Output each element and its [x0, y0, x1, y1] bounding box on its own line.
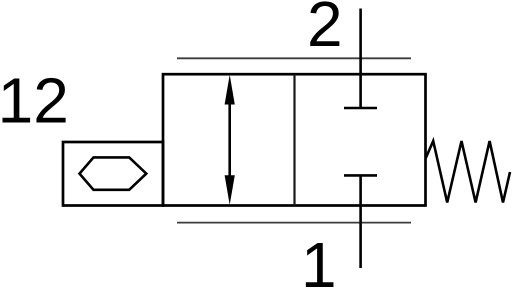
- svg-text:2: 2: [307, 0, 343, 60]
- port 2 blocked seat: [344, 107, 377, 110]
- svg-text:1: 1: [301, 229, 337, 290]
- flow arrow (double-headed): [225, 75, 235, 205]
- port 2 line: [359, 9, 362, 109]
- solenoid hexagon: [80, 157, 147, 189]
- port 1 blocked seat: [344, 174, 377, 177]
- wire: bottom rail: [177, 222, 411, 224]
- valve body: [163, 74, 426, 205]
- wire: top rail: [177, 57, 411, 59]
- valve position divider: [293, 74, 295, 205]
- port 1 line: [359, 175, 362, 268]
- svg-text:12: 12: [0, 65, 69, 137]
- return spring: [426, 141, 510, 203]
- solenoid coil box: [63, 142, 163, 206]
